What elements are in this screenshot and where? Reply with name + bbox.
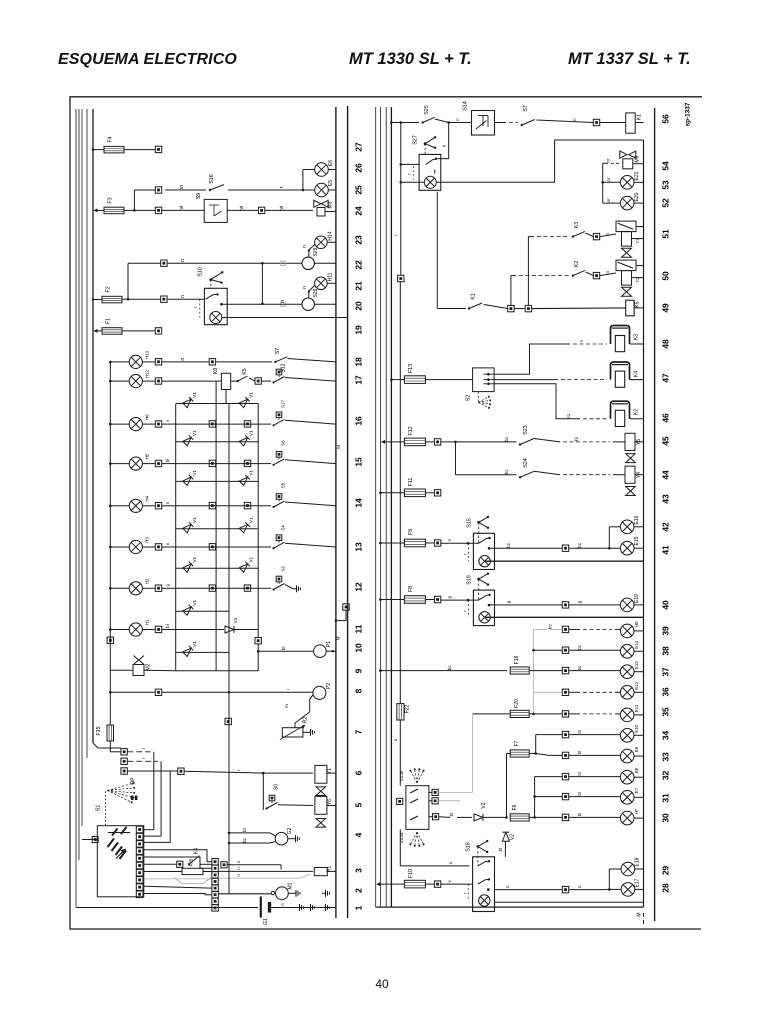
- svg-text:o: o: [448, 861, 453, 864]
- wire S2 to relay K4: [494, 379, 558, 381]
- wire H14 to S29: [309, 245, 315, 258]
- svg-text:S4: S4: [281, 525, 286, 531]
- wire Y1 row: [127, 770, 177, 772]
- connector X r: [398, 275, 404, 281]
- left bus wire 1: [75, 109, 77, 908]
- svg-text:g: g: [577, 600, 582, 603]
- svg-text:S14: S14: [463, 101, 469, 111]
- svg-text:34: 34: [661, 731, 671, 741]
- wire row H6: [162, 423, 176, 425]
- svg-text:n: n: [165, 501, 170, 504]
- svg-text:E21: E21: [634, 171, 640, 180]
- connector X S16: [155, 187, 161, 193]
- fuse F9: [404, 539, 425, 547]
- svg-text:H9: H9: [634, 621, 639, 627]
- svg-text:H6: H6: [145, 414, 150, 420]
- svg-text:F2: F2: [106, 286, 112, 292]
- svg-text:47: 47: [661, 373, 671, 383]
- gray riser to S13: [472, 714, 474, 793]
- fuse F3: [104, 207, 124, 214]
- left bus wire 4: [86, 109, 88, 758]
- svg-text:P2: P2: [326, 683, 332, 689]
- wire H11 to S28: [309, 286, 315, 299]
- contact K2: [572, 274, 574, 276]
- wire F10 feed: [376, 882, 380, 886]
- wire v row: [227, 864, 281, 866]
- relay coil K5: [626, 300, 634, 316]
- right panel border line: [654, 108, 656, 921]
- wire S19 to E19: [490, 604, 563, 606]
- svg-text:53: 53: [661, 180, 671, 190]
- svg-text:S24: S24: [523, 458, 529, 468]
- lamp E19: [620, 598, 634, 612]
- svg-text:25: 25: [354, 185, 364, 195]
- wire S10 to S28: [222, 303, 303, 305]
- svg-text:S9: S9: [196, 193, 202, 200]
- lamp E10 row: [562, 731, 568, 737]
- diode row bus 568: [176, 567, 259, 569]
- svg-text:V1: V1: [249, 430, 254, 436]
- connector X H12: [155, 378, 161, 384]
- connector X2b: [221, 862, 227, 868]
- wire P2 to R2: [310, 695, 313, 712]
- svg-text:S6: S6: [281, 440, 286, 446]
- wire S10 lamp return: [222, 317, 348, 319]
- lamp E15: [620, 541, 634, 555]
- lamp E8 row: [562, 773, 568, 779]
- svg-text:E16: E16: [634, 515, 640, 524]
- wire F9 feed: [380, 542, 404, 544]
- lamp E13 row: [562, 667, 568, 673]
- fuse F18: [510, 667, 529, 674]
- svg-text:V1: V1: [192, 392, 197, 398]
- lamp E18: [621, 862, 635, 876]
- diode row bus 652: [176, 651, 229, 653]
- svg-text:bc: bc: [548, 623, 553, 629]
- diode V1 right 481: [239, 475, 250, 486]
- wire S18 to E17: [495, 889, 563, 891]
- wire F11 feed: [380, 492, 404, 494]
- connector X P2: [155, 689, 161, 695]
- svg-text:S27: S27: [413, 135, 419, 145]
- fuse F13: [404, 376, 425, 384]
- wire S13 to S18: [400, 829, 469, 866]
- svg-text:G1: G1: [263, 918, 269, 925]
- diode V2: [474, 814, 483, 821]
- svg-text:n: n: [236, 874, 241, 877]
- ground M1 frame: [322, 892, 326, 894]
- connector column X5: [121, 749, 127, 755]
- wire row H2: [162, 587, 176, 589]
- svg-text:bc: bc: [577, 645, 582, 649]
- wire bus to S1: [82, 839, 97, 841]
- svg-text:H5: H5: [145, 453, 150, 459]
- connector X K1a: [508, 305, 514, 311]
- svg-text:n: n: [447, 539, 452, 542]
- svg-text:F15: F15: [96, 726, 102, 735]
- connector X Y1: [178, 768, 184, 774]
- wire E13 row feed: [380, 670, 507, 672]
- svg-text:n: n: [180, 295, 186, 298]
- svg-text:bl: bl: [449, 813, 454, 817]
- svg-text:n: n: [577, 885, 582, 888]
- solenoid Y5: [625, 433, 635, 450]
- diode V1 right 529: [239, 522, 250, 533]
- svg-text:K5: K5: [242, 368, 248, 375]
- wire hazard to K1 contact: [436, 192, 438, 309]
- wire F2 feed: [93, 299, 102, 301]
- svg-text:S16: S16: [209, 174, 215, 184]
- resistor R1: [314, 868, 327, 876]
- solenoid valve Y1: [315, 765, 327, 783]
- outer frame: [70, 97, 702, 929]
- lamp in S15: [479, 556, 490, 567]
- svg-text:17: 17: [354, 375, 364, 385]
- svg-text:bl: bl: [165, 624, 170, 628]
- lamp E11 row: [562, 711, 568, 717]
- svg-text:n: n: [572, 118, 577, 121]
- connector on riser: [107, 637, 113, 643]
- svg-text:vi: vi: [179, 206, 185, 210]
- lamp H13: [110, 361, 129, 363]
- svg-text:S23: S23: [523, 425, 529, 435]
- svg-text:E14: E14: [634, 640, 639, 648]
- svg-text:r: r: [286, 688, 291, 690]
- right panel bus 3 (feed): [390, 107, 392, 907]
- wire hazard out: [436, 140, 643, 182]
- svg-text:K3: K3: [634, 334, 640, 340]
- left bus wire 3: [81, 109, 83, 826]
- lamp H6: [110, 423, 129, 425]
- svg-text:n: n: [441, 144, 446, 147]
- right bottom rail: [376, 906, 644, 908]
- wire E14 left: [534, 649, 563, 651]
- svg-text:35: 35: [661, 707, 671, 717]
- svg-text:or: or: [606, 158, 611, 163]
- diode V1 left 404: [183, 397, 194, 408]
- wire F3 feed: [94, 208, 98, 212]
- svg-text:E18: E18: [635, 857, 641, 866]
- svg-text:bl: bl: [242, 828, 247, 832]
- svg-text:bl: bl: [574, 437, 579, 441]
- lamp in hazard unit: [401, 181, 425, 183]
- riser to K3 contact: [527, 237, 529, 306]
- svg-text:n: n: [236, 867, 241, 870]
- svg-text:r: r: [463, 892, 468, 894]
- connector S13 r1: [432, 789, 438, 795]
- ground battery 1: [296, 907, 300, 909]
- svg-text:M: M: [336, 445, 341, 449]
- valve symbol Y5: [626, 454, 636, 463]
- ground R2: [303, 731, 307, 733]
- connector X F1: [155, 328, 161, 334]
- switch unit S19: [473, 590, 494, 626]
- hazard unit box: [419, 154, 441, 190]
- svg-text:E19: E19: [634, 594, 640, 603]
- svg-text:o: o: [165, 542, 170, 545]
- svg-text:51: 51: [661, 229, 671, 239]
- svg-text:n: n: [302, 286, 307, 289]
- svg-text:m: m: [284, 704, 289, 708]
- svg-text:H13: H13: [145, 350, 150, 359]
- svg-text:E5: E5: [328, 180, 334, 186]
- svg-text:r: r: [141, 747, 146, 749]
- svg-text:33: 33: [661, 752, 671, 762]
- gray wire S13 to F20: [438, 791, 472, 793]
- lamp E6: [315, 163, 329, 177]
- diode V1 left 481: [183, 475, 194, 486]
- svg-text:M3: M3: [328, 201, 334, 208]
- svg-text:F18: F18: [514, 655, 520, 664]
- connector X H13: [155, 359, 161, 365]
- svg-text:bl: bl: [577, 792, 582, 795]
- wire row H4: [162, 505, 176, 507]
- left panel border line inner: [335, 107, 337, 918]
- ground G2: [288, 838, 292, 840]
- svg-text:21: 21: [354, 281, 364, 291]
- svg-text:n: n: [280, 903, 285, 906]
- svg-text:V1: V1: [249, 470, 254, 476]
- svg-text:54: 54: [661, 161, 671, 171]
- svg-text:V1: V1: [192, 599, 197, 605]
- svg-text:bc: bc: [242, 837, 247, 843]
- svg-text:H3: H3: [145, 537, 150, 543]
- wire r riser: [400, 123, 402, 276]
- svg-text:56: 56: [661, 114, 671, 124]
- switch S23: [519, 443, 521, 445]
- connector X F12: [425, 441, 434, 443]
- svg-text:bc: bc: [504, 469, 509, 475]
- M bus connector: [336, 610, 346, 620]
- wire label vi: [165, 189, 206, 191]
- connector dashes: [127, 751, 150, 753]
- connector X K5: [255, 378, 261, 384]
- connector X S1: [92, 837, 98, 843]
- relay contact K4: [144, 863, 177, 865]
- wire to relay coil K5: [532, 307, 626, 310]
- svg-text:3: 3: [354, 868, 364, 873]
- left bottom rail: [76, 907, 258, 909]
- connector X S29: [161, 260, 167, 266]
- svg-text:6: 6: [354, 770, 364, 775]
- svg-text:o: o: [393, 738, 398, 741]
- svg-text:V1: V1: [192, 430, 197, 436]
- wire H13 row to S7: [162, 361, 210, 363]
- connector X S10: [161, 296, 167, 302]
- svg-text:K1: K1: [471, 293, 477, 300]
- svg-text:R2: R2: [303, 717, 309, 724]
- svg-text:F25: F25: [189, 858, 194, 866]
- time relay S9: [204, 199, 227, 222]
- svg-text:V1: V1: [249, 556, 254, 562]
- svg-text:F4: F4: [108, 136, 114, 142]
- lamp E14 row: [562, 647, 568, 653]
- right panel bus 2: [385, 107, 387, 907]
- switch S7b: [521, 124, 523, 126]
- svg-text:23: 23: [354, 235, 364, 245]
- svg-text:4: 4: [354, 832, 364, 837]
- wire E12 left: [534, 691, 563, 693]
- svg-text:S13b: S13b: [399, 770, 404, 781]
- diode row bus 529: [176, 528, 259, 530]
- svg-text:38: 38: [661, 646, 671, 656]
- svg-text:16: 16: [354, 416, 364, 426]
- diode row bus 404: [176, 403, 259, 405]
- svg-text:E7: E7: [634, 788, 639, 794]
- fuse F6: [510, 814, 529, 821]
- svg-text:F6: F6: [512, 804, 518, 810]
- connector X F8: [425, 599, 434, 601]
- pull switch S29: [302, 257, 314, 269]
- svg-text:V1: V1: [192, 470, 197, 476]
- connector X H2: [155, 585, 161, 591]
- lamp E21: [603, 181, 621, 183]
- wire to connector P1: [255, 638, 261, 644]
- lamp H5: [110, 463, 129, 465]
- svg-text:n: n: [455, 118, 460, 121]
- svg-text:10: 10: [354, 643, 364, 653]
- connector X S9: [155, 207, 161, 213]
- svg-text:g: g: [447, 596, 452, 599]
- svg-text:F9: F9: [408, 529, 414, 535]
- connector X F9: [425, 542, 434, 544]
- svg-text:bl: bl: [498, 848, 503, 852]
- gray riser bc: [533, 629, 535, 714]
- wire F1 feed: [94, 329, 98, 333]
- svg-text:S7: S7: [523, 105, 529, 112]
- svg-text:32: 32: [661, 771, 671, 781]
- svg-text:bl: bl: [281, 647, 286, 651]
- lamp in S19: [479, 612, 490, 623]
- ground M1: [288, 892, 292, 894]
- svg-text:or: or: [606, 177, 611, 182]
- svg-text:30: 30: [661, 813, 671, 823]
- solenoid Y2: [616, 260, 636, 271]
- wire F7 left riser: [507, 753, 511, 755]
- svg-text:S18: S18: [466, 842, 472, 852]
- motor M1: [218, 893, 270, 895]
- svg-text:bl: bl: [577, 730, 582, 733]
- svg-text:K1: K1: [637, 114, 643, 120]
- ground battery 2: [307, 907, 311, 909]
- matrix column b: [228, 404, 230, 671]
- switch unit S15: [473, 533, 494, 569]
- switch S24: [519, 476, 521, 478]
- bus turn to connectors: [93, 743, 121, 748]
- svg-text:ro: ro: [605, 270, 610, 275]
- wire F2 to S10: [122, 298, 161, 300]
- svg-text:n: n: [579, 340, 584, 343]
- svg-text:F13: F13: [408, 364, 414, 373]
- wire n row gray: [218, 877, 300, 879]
- svg-text:24: 24: [354, 206, 364, 216]
- svg-text:20: 20: [354, 301, 364, 311]
- svg-text:14: 14: [354, 498, 364, 508]
- lamp H12: [110, 380, 129, 382]
- lamp in S18: [467, 884, 469, 900]
- wire F8 feed: [380, 599, 404, 601]
- svg-text:bl: bl: [577, 751, 582, 754]
- svg-text:S5: S5: [281, 482, 286, 488]
- svg-text:9: 9: [354, 668, 364, 673]
- fuse F20: [510, 710, 529, 717]
- svg-text:or: or: [606, 198, 611, 203]
- harness riser b: [160, 761, 162, 836]
- svg-text:V1: V1: [192, 517, 197, 523]
- wire S14 to S7: [495, 122, 507, 124]
- svg-text:F8: F8: [408, 586, 414, 592]
- svg-text:48: 48: [661, 339, 671, 349]
- svg-text:S2: S2: [466, 395, 472, 402]
- diode row bus 481: [176, 480, 259, 482]
- svg-text:MT 1337 SL + T.: MT 1337 SL + T.: [568, 50, 691, 68]
- lamp E9 row: [562, 752, 568, 758]
- svg-text:8: 8: [354, 688, 364, 693]
- svg-text:S28: S28: [313, 288, 319, 297]
- fuse F1: [102, 328, 122, 335]
- wire S29 feed: [127, 263, 129, 299]
- svg-text:K4: K4: [194, 848, 200, 854]
- valve symbol Y6: [316, 819, 326, 828]
- contact K1: [437, 308, 466, 310]
- wire F12 feed: [381, 440, 385, 444]
- svg-text:K2: K2: [634, 409, 640, 415]
- connector S13 r2: [432, 798, 438, 804]
- gauge P2: [313, 686, 326, 699]
- wire S2 to relay K3: [494, 344, 570, 374]
- ground battery 3: [322, 907, 326, 909]
- svg-text:r: r: [141, 757, 146, 759]
- lamp E16: [620, 520, 634, 534]
- svg-text:V1: V1: [233, 617, 238, 623]
- svg-text:OP: OP: [131, 777, 137, 785]
- svg-text:H7: H7: [634, 808, 639, 814]
- wire F15 down: [109, 741, 111, 752]
- svg-text:S10: S10: [198, 267, 204, 277]
- wire F13 to S2: [425, 379, 472, 381]
- svg-text:37: 37: [661, 667, 671, 677]
- connector X F10: [425, 883, 434, 885]
- svg-text:40: 40: [375, 977, 389, 991]
- diode V1 left 442: [183, 435, 194, 446]
- lamp E12 row: [562, 689, 568, 695]
- light switch S13 fan a: [417, 832, 424, 844]
- svg-text:E11: E11: [634, 704, 639, 712]
- solenoid Y3: [616, 221, 636, 232]
- diode V1 H1 row: [225, 626, 234, 633]
- diode V1 right 442: [239, 435, 250, 446]
- S1 contacts: [108, 832, 130, 834]
- resistor F25: [144, 871, 182, 873]
- solenoid valve Y6: [315, 796, 327, 814]
- wire S9 out: [227, 209, 258, 211]
- relay K2: [611, 401, 630, 419]
- switch S4: [258, 546, 271, 548]
- svg-text:r: r: [193, 306, 198, 308]
- connector on riser 2: [225, 718, 231, 724]
- solenoid Y4: [625, 466, 635, 483]
- wire M2 row: [110, 669, 133, 671]
- svg-text:F10: F10: [408, 869, 414, 878]
- svg-text:E13: E13: [634, 661, 639, 669]
- svg-text:E10: E10: [634, 724, 639, 732]
- svg-text:bc: bc: [447, 665, 452, 671]
- connector X K1b: [525, 305, 531, 311]
- svg-text:V1: V1: [249, 392, 254, 398]
- svg-text:E12: E12: [634, 681, 639, 689]
- fuse F2: [102, 296, 122, 303]
- svg-text:r: r: [236, 769, 241, 771]
